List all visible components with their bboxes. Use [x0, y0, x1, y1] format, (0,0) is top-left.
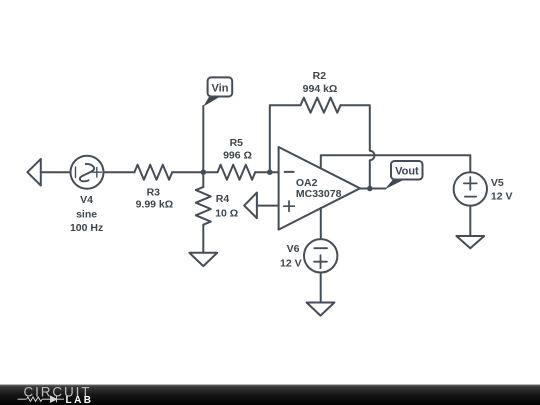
svg-text:12 V: 12 V [280, 258, 302, 270]
svg-text:V6: V6 [287, 243, 300, 255]
svg-text:R3: R3 [147, 187, 161, 199]
svg-text:100 Hz: 100 Hz [70, 222, 103, 234]
svg-text:R5: R5 [230, 137, 244, 149]
svg-text:V5: V5 [491, 177, 504, 189]
svg-text:V4: V4 [80, 194, 93, 206]
svg-text:Vout: Vout [395, 165, 419, 177]
svg-text:9.99 kΩ: 9.99 kΩ [136, 199, 174, 211]
svg-text:10 Ω: 10 Ω [215, 207, 238, 219]
svg-text:994 kΩ: 994 kΩ [303, 83, 338, 95]
svg-text:MC33078: MC33078 [296, 188, 342, 200]
svg-text:Vin: Vin [212, 83, 229, 95]
svg-text:LAB: LAB [66, 395, 92, 405]
svg-text:sine: sine [76, 209, 97, 221]
svg-text:R4: R4 [216, 193, 230, 205]
svg-text:R2: R2 [313, 70, 327, 82]
svg-text:996 Ω: 996 Ω [223, 149, 252, 161]
svg-text:12 V: 12 V [491, 190, 513, 202]
